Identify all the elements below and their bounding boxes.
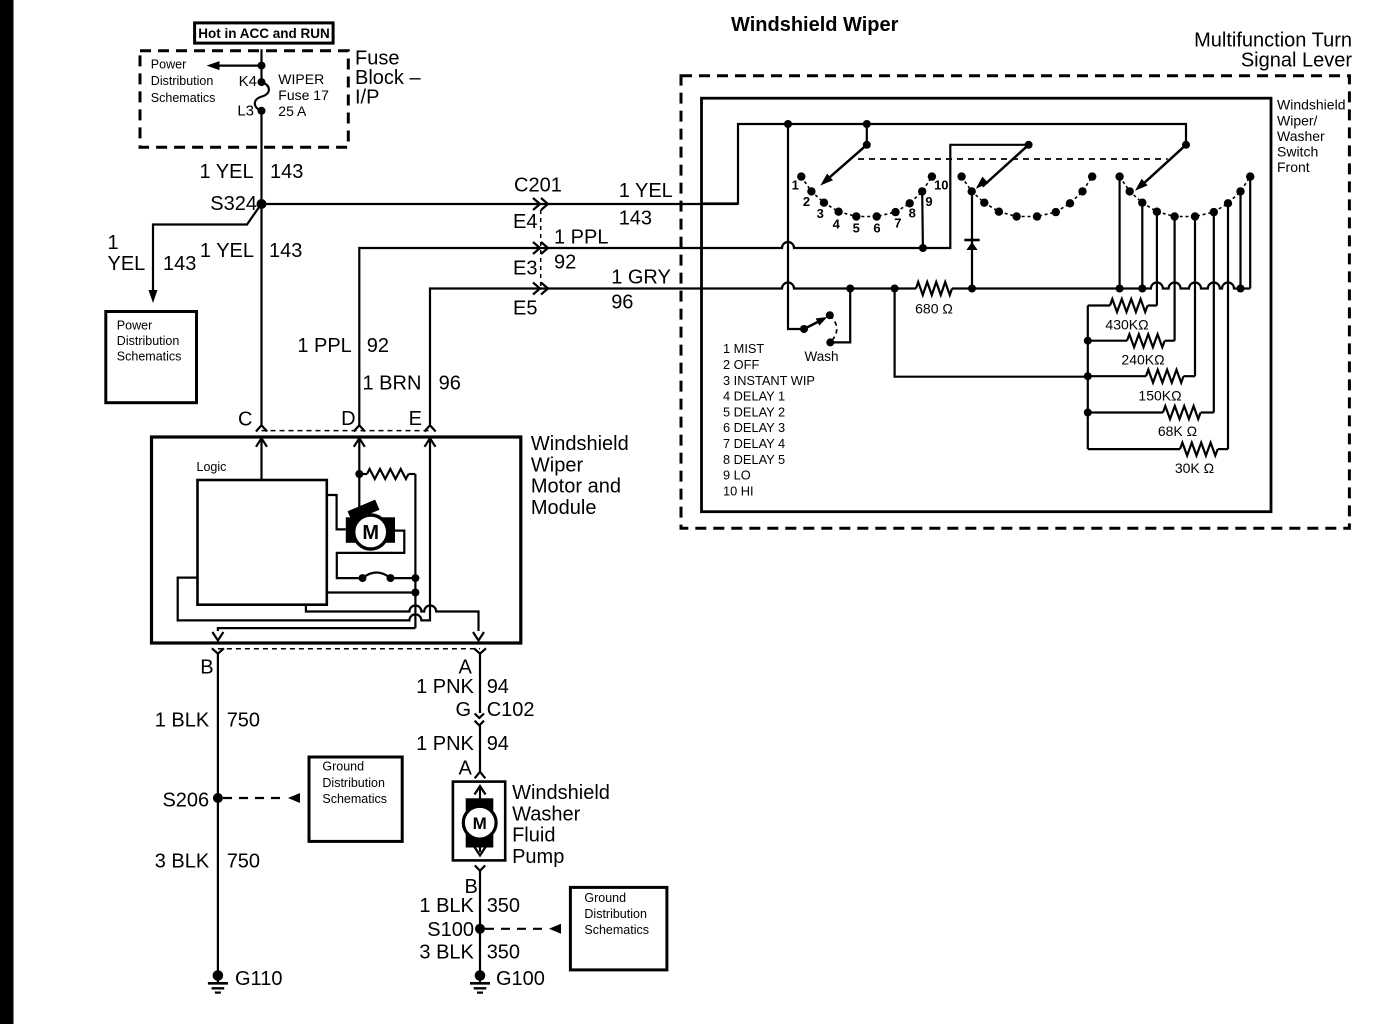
- svg-text:1 BLK: 1 BLK: [419, 895, 474, 917]
- wire 1 PNK 94 C102 to pump pin A: [479, 725, 481, 771]
- wire wash contact to 1 GRY bus: [830, 289, 850, 343]
- svg-text:C: C: [238, 409, 252, 431]
- wire logic to rail lower: [327, 591, 416, 593]
- connector dashed line at module top: [262, 430, 431, 432]
- svg-text:3 INSTANT WIP: 3 INSTANT WIP: [723, 373, 815, 388]
- svg-text:Windshield: Windshield: [531, 433, 629, 455]
- diode wash/delay: [971, 191, 973, 288]
- bank 1 contact 10: [928, 172, 936, 180]
- box Windshield Wiper Motor and Module: [152, 437, 521, 643]
- svg-text:1 PNK: 1 PNK: [416, 676, 474, 698]
- wire bank3 contact 4 to 430K: [1156, 212, 1158, 306]
- node D-resistor junction: [355, 470, 363, 478]
- bank 3 contact 2: [1126, 187, 1134, 195]
- svg-text:E3: E3: [513, 257, 537, 279]
- park switch blade arc: [363, 573, 391, 579]
- bank 2 contact 1: [957, 172, 965, 180]
- svg-text:1 MIST: 1 MIST: [723, 341, 764, 356]
- splice S100: [475, 924, 485, 934]
- svg-text:1 PNK: 1 PNK: [416, 733, 474, 755]
- pin K4 terminal dot: [258, 78, 266, 86]
- svg-text:92: 92: [367, 335, 389, 357]
- svg-text:YEL: YEL: [108, 253, 146, 275]
- resistor 680 ohm: [916, 282, 952, 295]
- svg-text:A: A: [459, 757, 473, 779]
- svg-text:Schematics: Schematics: [584, 923, 649, 937]
- svg-text:Schematics: Schematics: [322, 792, 387, 806]
- svg-text:96: 96: [439, 373, 461, 395]
- box Ground Distribution Schematics (left): [309, 757, 402, 841]
- svg-text:3 BLK: 3 BLK: [155, 851, 210, 873]
- box Ground Distribution Schematics (right): [570, 887, 667, 970]
- wire pin C to logic box: [260, 455, 262, 480]
- bank 3 contact 4: [1153, 208, 1161, 216]
- svg-text:8 DELAY 5: 8 DELAY 5: [723, 452, 785, 467]
- node top bus to wiper arm 1: [863, 120, 871, 128]
- svg-text:68K Ω: 68K Ω: [1158, 423, 1197, 439]
- wire 1 BLK 750 pin B to G110: [217, 654, 219, 972]
- svg-text:Switch: Switch: [1277, 144, 1318, 160]
- svg-text:L3: L3: [237, 102, 254, 119]
- bank 3 contact 1: [1115, 172, 1123, 180]
- resistor 430K: [1088, 304, 1110, 306]
- svg-text:430KΩ: 430KΩ: [1105, 317, 1148, 333]
- node park switch junction: [411, 574, 419, 582]
- svg-text:3 BLK: 3 BLK: [419, 941, 474, 963]
- wire 1 BRN 96 from E5 down to pin E: [430, 289, 703, 426]
- bank 1 contact 4: [834, 208, 842, 216]
- resistor 30K: [1088, 448, 1180, 450]
- wire bank3 contact 9 to bus: [1239, 191, 1241, 288]
- svg-text:Windshield: Windshield: [512, 782, 610, 804]
- svg-text:143: 143: [269, 240, 302, 262]
- svg-text:Distribution: Distribution: [322, 776, 385, 790]
- wire 1 GRY tap to ladder mid: [895, 289, 1085, 377]
- node bank3 contact 9 junction: [1237, 285, 1245, 293]
- svg-text:C201: C201: [514, 175, 562, 197]
- svg-text:9: 9: [925, 194, 932, 209]
- svg-text:Power: Power: [151, 58, 186, 72]
- bank 2 contact 6: [1033, 212, 1041, 220]
- svg-text:S324: S324: [210, 193, 257, 215]
- dashed reference to ground distribution (right): [485, 928, 547, 930]
- wire logic to pin A (with jump-overs): [306, 605, 479, 631]
- connector dashed line at module bottom: [218, 648, 480, 650]
- pin L3 terminal dot: [258, 107, 266, 115]
- arrow to Power Distribution Schematics (fuse box): [217, 64, 262, 66]
- wire S324 down to pin C (1 YEL 143): [260, 204, 262, 425]
- ground G110: [213, 970, 224, 981]
- wire 1 PPL to arm 2 pivot (with jump-over): [703, 145, 1025, 248]
- svg-text:8: 8: [909, 206, 916, 221]
- svg-text:Pump: Pump: [512, 846, 564, 868]
- svg-text:350: 350: [487, 941, 520, 963]
- bank 1 contact 6: [873, 212, 881, 220]
- svg-text:G: G: [455, 699, 471, 721]
- bank 3 contact 3: [1138, 199, 1146, 207]
- resistor 240K: [1088, 340, 1127, 342]
- box Windshield Washer Fluid Pump: [453, 782, 505, 861]
- pump feed arrow: [479, 787, 481, 799]
- wire 1 BLK 350 pump to G100: [479, 871, 481, 972]
- svg-text:Distribution: Distribution: [151, 74, 214, 88]
- wire bank3 contact 6 to 150K: [1194, 217, 1196, 377]
- wire switch feed 1 YEL riser and top bus: [703, 124, 1186, 204]
- bank 2 contact 3: [980, 199, 988, 207]
- wire motor right brush to park switch: [337, 531, 405, 579]
- fuse WIPER Fuse 17 25A element: [255, 82, 269, 111]
- wire S324 to C201 (1 YEL 143): [262, 203, 739, 205]
- node contact 9 to 1 PPL: [919, 244, 927, 252]
- svg-text:Wiper/: Wiper/: [1277, 112, 1318, 128]
- svg-text:M: M: [473, 814, 487, 833]
- svg-text:30K Ω: 30K Ω: [1175, 460, 1214, 476]
- svg-text:7: 7: [894, 216, 901, 231]
- svg-text:Distribution: Distribution: [117, 334, 180, 348]
- wire wash switch feed: [788, 124, 801, 329]
- node arm 2 pivot: [1025, 141, 1033, 149]
- svg-text:Schematics: Schematics: [117, 350, 182, 364]
- svg-text:Washer: Washer: [1277, 128, 1325, 144]
- bank 3 contact 6: [1191, 212, 1199, 220]
- pump pin B half-arrow: [475, 865, 485, 870]
- svg-text:Fluid: Fluid: [512, 825, 555, 847]
- svg-text:Distribution: Distribution: [584, 907, 647, 921]
- wire logic to motor left brush: [327, 495, 346, 529]
- dashed mechanical link line: [858, 158, 1168, 160]
- fuse block I/P dashed box: [140, 51, 348, 148]
- svg-text:680 Ω: 680 Ω: [915, 301, 953, 317]
- svg-text:1: 1: [792, 178, 799, 193]
- svg-text:5: 5: [853, 221, 860, 236]
- wash switch lower contact: [826, 338, 834, 346]
- pin D half-arrow: [354, 425, 365, 431]
- svg-text:I/P: I/P: [355, 87, 379, 109]
- svg-text:1 GRY: 1 GRY: [611, 267, 671, 289]
- svg-text:350: 350: [487, 895, 520, 917]
- svg-text:240KΩ: 240KΩ: [1121, 352, 1164, 368]
- svg-text:25 A: 25 A: [278, 103, 307, 119]
- node diode anode junction: [968, 285, 976, 293]
- svg-text:1 PPL: 1 PPL: [297, 335, 351, 357]
- wash switch blade: [800, 325, 808, 333]
- bank 3 contact 9: [1236, 187, 1244, 195]
- resistor 68K: [1088, 411, 1163, 413]
- svg-text:Ground: Ground: [322, 760, 364, 774]
- svg-text:D: D: [341, 408, 355, 430]
- node rail 150K: [1084, 372, 1092, 380]
- wash switch travel arc: [830, 315, 837, 342]
- svg-text:G100: G100: [496, 968, 545, 990]
- svg-text:143: 143: [619, 208, 652, 230]
- wire bank1 contact 9 stub: [921, 191, 924, 248]
- power feed box Hot in ACC and RUN: [195, 23, 334, 43]
- svg-text:750: 750: [227, 710, 260, 732]
- wire pin E to logic left (with jump-over): [178, 455, 430, 620]
- svg-text:4: 4: [833, 216, 841, 231]
- wire resistor to park switch rail: [414, 474, 416, 628]
- wire bank3 contact 7 to 68K: [1213, 212, 1215, 412]
- svg-text:7 DELAY 4: 7 DELAY 4: [723, 436, 785, 451]
- motor wiper M: [346, 517, 395, 543]
- svg-text:1 PPL: 1 PPL: [554, 227, 608, 249]
- switch arm 3 (HI/LO bank): [1142, 145, 1186, 185]
- pin E half-arrow: [424, 425, 435, 431]
- svg-text:Ground: Ground: [584, 891, 626, 905]
- svg-text:WIPER: WIPER: [278, 71, 324, 87]
- bank 3 contact 8: [1224, 199, 1232, 207]
- bank 2 contact 7: [1052, 208, 1060, 216]
- arrowhead ground distribution reference right: [549, 924, 561, 934]
- resistor wiper motor internal: [367, 469, 409, 479]
- svg-text:1: 1: [108, 232, 119, 254]
- svg-text:1 YEL: 1 YEL: [200, 240, 254, 262]
- svg-text:Module: Module: [531, 497, 597, 519]
- bank 1 contact 1: [797, 172, 805, 180]
- svg-text:1 YEL: 1 YEL: [199, 161, 253, 183]
- bank 2 contact 2: [968, 187, 976, 195]
- switch arm 1 (delay bank): [827, 145, 867, 180]
- resistor 150K: [1088, 375, 1146, 377]
- wire 1 PNK 94 pin A to C102: [479, 654, 481, 713]
- svg-text:Windshield: Windshield: [1277, 97, 1345, 113]
- motor washer pump M: [466, 798, 494, 813]
- wire S324 branch to Power Distribution Schematics: [153, 207, 260, 293]
- svg-text:Washer: Washer: [512, 803, 581, 825]
- node feed junction: [258, 62, 266, 70]
- wire resistive bus with jump-overs to ladder: [972, 283, 1250, 289]
- switch bank 1 contact arc: [801, 177, 932, 217]
- node top bus to wash feed: [784, 120, 792, 128]
- svg-text:Windshield Wiper: Windshield Wiper: [731, 14, 899, 36]
- svg-text:Wash: Wash: [804, 349, 838, 364]
- bank 1 contact 5: [852, 212, 860, 220]
- svg-text:1 BRN: 1 BRN: [362, 373, 421, 395]
- svg-text:Multifunction Turn: Multifunction Turn: [1194, 30, 1352, 52]
- svg-text:94: 94: [487, 676, 509, 698]
- park switch contact left: [359, 574, 367, 582]
- node bank3 contact 1 junction: [1116, 285, 1124, 293]
- svg-text:E4: E4: [513, 211, 537, 233]
- node 150K tap junction: [891, 285, 899, 293]
- svg-text:Signal Lever: Signal Lever: [1241, 50, 1353, 72]
- svg-text:10: 10: [934, 178, 948, 193]
- node arm 3 pivot: [1182, 141, 1190, 149]
- dashed reference to ground distribution: [223, 797, 286, 799]
- wire pin D to wiper motor: [358, 455, 360, 508]
- node logic feedback junction: [411, 589, 419, 597]
- svg-text:4 DELAY 1: 4 DELAY 1: [723, 389, 785, 404]
- svg-text:1 YEL: 1 YEL: [619, 180, 673, 202]
- pin A half-arrow: [474, 648, 486, 653]
- svg-text:S206: S206: [162, 789, 209, 811]
- connector C201 dashed boundary: [540, 210, 542, 289]
- node bank3 contact 3 junction: [1138, 285, 1146, 293]
- wire 1 PPL 92 from E3 down to pin D: [359, 248, 703, 425]
- bank 2 contact 10: [1088, 172, 1096, 180]
- svg-text:Motor and: Motor and: [531, 476, 621, 498]
- svg-text:K4: K4: [239, 73, 257, 90]
- bank 1 contact 2: [807, 187, 815, 195]
- svg-text:143: 143: [163, 253, 196, 275]
- switch bank 3 contact arc: [1120, 177, 1251, 217]
- svg-text:Wiper: Wiper: [531, 454, 584, 476]
- svg-text:1 BLK: 1 BLK: [155, 710, 210, 732]
- svg-text:C102: C102: [487, 699, 535, 721]
- wire fuse output down to S324: [260, 111, 262, 204]
- svg-text:Schematics: Schematics: [151, 91, 216, 105]
- svg-text:Logic: Logic: [197, 460, 227, 474]
- svg-text:5 DELAY 2: 5 DELAY 2: [723, 404, 785, 419]
- svg-text:B: B: [200, 657, 213, 679]
- svg-text:S100: S100: [427, 919, 474, 941]
- park switch contact right: [387, 574, 395, 582]
- pin D arrow into module: [358, 438, 360, 455]
- svg-text:10 HI: 10 HI: [723, 483, 754, 498]
- wire battery feed into fuse: [260, 49, 262, 82]
- stub to arm 1 pivot: [866, 124, 868, 145]
- wire rail to pin B: [218, 628, 416, 631]
- wash switch throw contact: [826, 311, 834, 319]
- svg-text:E5: E5: [513, 297, 537, 319]
- bank 2 contact 8: [1066, 199, 1074, 207]
- svg-text:E: E: [409, 408, 422, 430]
- box logic module: [198, 480, 327, 605]
- svg-text:143: 143: [270, 161, 303, 183]
- bank 2 contact 5: [1012, 212, 1020, 220]
- wire bank3 contact 1 to bus: [1118, 177, 1120, 289]
- svg-text:Power: Power: [117, 318, 152, 332]
- node rail 240K: [1084, 337, 1092, 345]
- wire bank3 contact 10 to bus end: [1249, 177, 1251, 289]
- wire bank3 contact 3 to bus: [1141, 203, 1143, 289]
- pin E arrow into module: [429, 438, 431, 455]
- wire 1 GRY bus (with jump-over at wash feed): [703, 283, 850, 289]
- splice S206: [213, 793, 223, 803]
- bank 1 contact 7: [891, 208, 899, 216]
- bank 3 contact 7: [1210, 208, 1218, 216]
- bank 3 contact 10: [1246, 172, 1254, 180]
- svg-text:Fuse 17: Fuse 17: [278, 87, 329, 103]
- bank 1 contact 3: [820, 199, 828, 207]
- pin C half-arrow: [256, 425, 267, 431]
- bank 2 contact 9: [1078, 187, 1086, 195]
- svg-text:M: M: [362, 522, 379, 544]
- splice S324: [257, 199, 267, 209]
- wire ladder left rail: [1087, 306, 1089, 450]
- svg-text:96: 96: [611, 292, 633, 314]
- svg-text:92: 92: [554, 252, 576, 274]
- ground G100: [475, 970, 486, 981]
- switch arm 2 (middle bank): [983, 145, 1029, 187]
- arrowhead ground distribution reference: [288, 793, 300, 803]
- bank 3 contact 5: [1170, 212, 1178, 220]
- box Power Distribution Schematics: [106, 312, 197, 403]
- svg-text:6 DELAY 3: 6 DELAY 3: [723, 420, 785, 435]
- wire bank3 contact 8 to 30K: [1227, 203, 1229, 449]
- svg-text:6: 6: [873, 221, 880, 236]
- svg-text:G110: G110: [235, 968, 282, 990]
- svg-text:3: 3: [817, 206, 824, 221]
- pin B half-arrow: [212, 648, 224, 653]
- box Multifunction Turn Signal Lever dashed: [681, 76, 1349, 529]
- bank 2 contact 4: [995, 208, 1003, 216]
- svg-text:Hot in ACC and RUN: Hot in ACC and RUN: [198, 26, 330, 41]
- node wash return junction: [846, 285, 854, 293]
- wire park switch to rail: [391, 577, 416, 579]
- box Windshield Wiper/Washer Switch Front: [702, 98, 1272, 512]
- scan edge bar: [0, 0, 14, 1024]
- pin C arrow into module: [260, 438, 262, 455]
- bank 1 contact 9: [918, 187, 926, 195]
- node rail 68K: [1084, 409, 1092, 417]
- pump return arrow: [479, 843, 481, 852]
- wire bank3 contact 5 to 240K: [1173, 217, 1175, 341]
- switch bank 2 contact arc: [962, 177, 1093, 217]
- svg-text:94: 94: [487, 733, 509, 755]
- node arm 1 pivot: [863, 141, 871, 149]
- svg-text:750: 750: [227, 851, 260, 873]
- pump pin A half-arrow: [475, 772, 486, 779]
- svg-text:150KΩ: 150KΩ: [1138, 387, 1181, 403]
- bank 1 contact 8: [906, 199, 914, 207]
- svg-text:2: 2: [803, 194, 810, 209]
- svg-text:Front: Front: [1277, 159, 1310, 175]
- svg-text:9 LO: 9 LO: [723, 468, 751, 483]
- svg-text:2 OFF: 2 OFF: [723, 357, 759, 372]
